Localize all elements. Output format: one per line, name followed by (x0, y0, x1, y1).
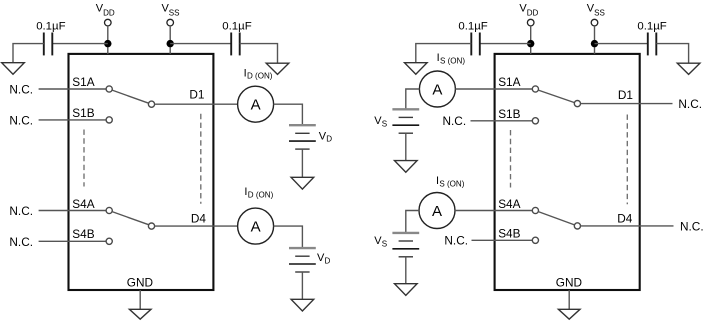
junction VSS (right) (591, 40, 598, 47)
wire S1A (left) (39, 88, 107, 90)
dashed continuation line right (U2) (626, 115, 628, 205)
dashed continuation line right (U1) (200, 114, 202, 204)
wire S1B (left) (39, 119, 107, 121)
wire S4B (right) (472, 239, 533, 241)
switch S4 pole A (left) (106, 207, 112, 213)
svg-text:N.C.: N.C. (678, 97, 702, 111)
svg-text:D: D (325, 257, 331, 266)
svg-text:DD: DD (103, 9, 115, 18)
svg-text:0.1µF: 0.1µF (36, 20, 65, 32)
wire ammeter to battery (406, 211, 419, 233)
ammeter A (IS(ON)) (419, 193, 455, 229)
switch S4 pole A (right) (532, 207, 538, 213)
wire GND (left) (139, 290, 141, 309)
wire ammeter to battery (274, 226, 303, 248)
IC U2 (quad switch, right) (495, 54, 640, 290)
svg-text:D (ON): D (ON) (248, 191, 274, 200)
switch S1 arm (right) (538, 90, 574, 103)
battery D source (289, 125, 316, 149)
svg-text:GND: GND (556, 275, 582, 289)
svg-text:SS: SS (594, 9, 605, 18)
ammeter A (ID(ON)) (238, 208, 274, 244)
switch S1 pole A (left) (106, 86, 112, 92)
junction VDD (left) (104, 40, 111, 47)
svg-text:SS: SS (169, 9, 180, 18)
capacitor C1 0.1uF (36, 20, 65, 55)
wire S4A (left) (39, 210, 107, 212)
wire GND (right) (568, 290, 570, 309)
ground (GND right) (558, 309, 580, 319)
svg-text:N.C.: N.C. (9, 204, 33, 218)
switch S4 arm (right) (538, 212, 574, 225)
svg-text:D4: D4 (617, 212, 633, 226)
wire ammeter to battery (406, 89, 420, 109)
ground (VD) (291, 177, 314, 189)
capacitor C3 0.1uF (458, 20, 487, 55)
svg-text:A: A (432, 203, 442, 220)
IC U1 (quad switch, left) (69, 54, 214, 290)
junction VDD (right) (527, 40, 534, 47)
battery S source (392, 233, 419, 257)
switch S1 pole B (right) (532, 118, 538, 124)
svg-text:S1B: S1B (498, 107, 520, 121)
power terminal VDD (left) (96, 3, 115, 26)
svg-text:D: D (326, 135, 332, 144)
svg-text:N.C.: N.C. (444, 234, 468, 248)
svg-text:S1A: S1A (498, 75, 520, 89)
label VS (374, 235, 387, 248)
wire S4A from ammeter (right) (455, 210, 532, 212)
svg-text:0.1µF: 0.1µF (458, 20, 487, 32)
wire S1A from ammeter (right) (455, 88, 532, 90)
svg-text:0.1µF: 0.1µF (222, 20, 251, 32)
svg-text:N.C.: N.C. (443, 114, 467, 128)
switch S1 throw (right) (574, 101, 580, 107)
label IS(ON) (437, 52, 466, 65)
battery S source (392, 109, 419, 133)
ground (C3) (405, 63, 428, 75)
wire battery to ground (405, 257, 407, 284)
wire D1 to N.C. (right) (581, 103, 673, 105)
wire VSS to C4 (595, 43, 648, 45)
switch S4 pole B (left) (106, 238, 112, 244)
svg-text:GND: GND (127, 275, 153, 289)
wire battery to ground (301, 272, 303, 299)
wire D1 to ammeter (left) (155, 103, 238, 105)
switch S1 arm (left) (112, 90, 149, 103)
switch S4 throw (left) (148, 223, 154, 229)
svg-text:N.C.: N.C. (9, 114, 33, 128)
svg-text:S1B: S1B (72, 106, 94, 120)
switch S1 pole B (left) (106, 117, 112, 123)
svg-text:A: A (251, 219, 261, 236)
label VD (319, 130, 333, 143)
ground (C2) (266, 63, 289, 74)
svg-text:S4A: S4A (72, 197, 94, 211)
switch S4 arm (left) (112, 212, 149, 225)
switch S1 pole A (right) (532, 86, 538, 92)
wire S4B (left) (39, 240, 107, 242)
label ID(ON) (244, 186, 273, 199)
svg-text:S1A: S1A (72, 75, 94, 89)
svg-text:N.C.: N.C. (9, 235, 33, 249)
ground (C4) (677, 63, 700, 74)
ammeter A (ID(ON)) (238, 86, 274, 122)
wire C3 to VDD junction (480, 43, 531, 45)
label VS (374, 115, 387, 128)
svg-text:D4: D4 (191, 211, 207, 225)
svg-text:S (ON): S (ON) (440, 56, 465, 65)
svg-text:S4B: S4B (72, 227, 94, 241)
wire S1B (right) (471, 120, 533, 122)
dashed continuation line left (U2) (510, 130, 512, 188)
dashed continuation line left (U1) (83, 130, 85, 187)
wire C1 to ground (13, 44, 44, 63)
ground (VS) (395, 161, 418, 173)
wire C1 to VDD junction (52, 43, 108, 45)
svg-text:N.C.: N.C. (9, 83, 33, 97)
ground (GND left) (129, 309, 151, 319)
svg-text:S4B: S4B (498, 226, 520, 240)
svg-text:N.C.: N.C. (680, 219, 704, 233)
switch S1 throw (left) (148, 101, 154, 107)
switch S4 pole B (right) (532, 237, 538, 243)
label ID(ON) (244, 67, 273, 80)
svg-text:A: A (251, 97, 261, 114)
wire VSS stub (left) (169, 26, 171, 54)
svg-text:0.1µF: 0.1µF (637, 20, 666, 32)
wire VDD stub (right) (530, 26, 532, 54)
capacitor C2 0.1uF (222, 20, 251, 55)
battery D source (289, 248, 316, 272)
wire VSS to C2 (170, 43, 231, 45)
svg-text:S4A: S4A (498, 197, 520, 211)
svg-text:S: S (382, 240, 387, 249)
power terminal VSS (left) (162, 3, 180, 26)
svg-text:S (ON): S (ON) (439, 180, 464, 189)
wire C4 to ground (656, 44, 688, 64)
svg-text:DD: DD (527, 9, 539, 18)
wire VSS stub (right) (594, 26, 596, 54)
ground (VD) (291, 299, 314, 311)
svg-text:A: A (432, 82, 442, 99)
power terminal VSS (right) (587, 3, 605, 26)
wire battery to ground (301, 149, 303, 177)
junction VSS (left) (167, 40, 174, 47)
svg-text:D1: D1 (189, 88, 204, 102)
label IS(ON) (436, 175, 465, 188)
ammeter A (IS(ON)) (419, 71, 455, 107)
wire C3 to ground (416, 44, 472, 63)
svg-text:D1: D1 (618, 88, 633, 102)
wire C2 to ground (240, 44, 278, 64)
wire battery to ground (405, 133, 407, 160)
switch S4 throw (right) (574, 223, 580, 229)
capacitor C4 0.1uF (637, 20, 666, 55)
wire VDD stub (left) (107, 26, 109, 54)
wire D4 to N.C. (right) (581, 225, 674, 227)
power terminal VDD (right) (519, 3, 538, 26)
label VD (317, 252, 331, 265)
svg-text:D (ON): D (ON) (247, 72, 273, 81)
wire D4 to ammeter (left) (155, 225, 238, 227)
svg-text:S: S (382, 120, 387, 129)
ground (VS) (395, 284, 418, 296)
ground (C1) (2, 63, 25, 75)
wire ammeter to battery (274, 104, 303, 125)
